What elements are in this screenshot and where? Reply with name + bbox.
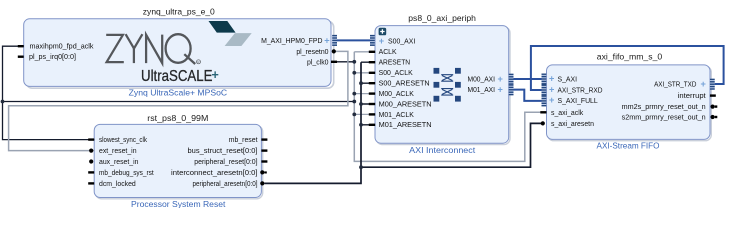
block rst_ps8_0_99M (94, 113, 263, 209)
pin aux_reset_in (89, 159, 139, 166)
svg-text:S00_ARESETN: S00_ARESETN (379, 81, 430, 88)
interconnect expand icon (379, 28, 387, 36)
pin dcm_locked (88, 181, 136, 188)
svg-text:rst_ps8_0_99M: rst_ps8_0_99M (147, 113, 208, 123)
pin S00_ACLK (369, 70, 413, 77)
pin S_AXI (542, 74, 578, 85)
wire aresetn branches to interconnect pins (361, 62, 375, 125)
pin M00_ACLK (369, 91, 414, 98)
svg-text:S00_AXI: S00_AXI (388, 39, 415, 46)
pin M00_ARESETN (369, 101, 432, 108)
svg-text:ACLK: ACLK (379, 49, 397, 56)
wire M00_AXI to S_AXI (511, 78, 543, 80)
pin mb_reset (229, 137, 268, 144)
svg-text:s_axi_aresetn: s_axi_aresetn (551, 121, 594, 128)
pin interrupt (678, 93, 716, 100)
pin s2mm_prmry_reset_out_n (622, 115, 718, 122)
svg-text:M01_ACLK: M01_ACLK (379, 112, 415, 119)
svg-text:S_AXI_FULL: S_AXI_FULL (558, 98, 598, 105)
svg-text:S00_ACLK: S00_ACLK (379, 70, 413, 77)
svg-text:M00_ARESETN: M00_ARESETN (379, 101, 432, 108)
junction M01_ACLK (352, 113, 356, 117)
junction clock left (1, 100, 5, 104)
svg-text:Zynq UltraScale+ MPSoC: Zynq UltraScale+ MPSoC (129, 87, 228, 97)
svg-text:zynq_ultra_ps_e_0: zynq_ultra_ps_e_0 (143, 6, 215, 16)
svg-text:Processor System Reset: Processor System Reset (131, 199, 226, 208)
pin maxihpm0_fpd_aclk (18, 44, 94, 51)
svg-text:AXI Interconnect: AXI Interconnect (409, 145, 476, 155)
pin interconnect_aresetn (171, 170, 267, 177)
svg-text:mb_reset: mb_reset (229, 137, 258, 144)
pin M01_ACLK (369, 112, 414, 119)
svg-text:s_axi_aclk: s_axi_aclk (551, 110, 584, 117)
ZYNQ logo gray parallelogram (225, 33, 252, 46)
pin S_AXI_FULL (542, 95, 598, 106)
svg-text:AXI_STR_TXD: AXI_STR_TXD (654, 82, 696, 89)
svg-text:pl_resetn0: pl_resetn0 (296, 49, 328, 56)
junction aresetn bottom (359, 165, 363, 169)
pin AXI_STR_TXD (654, 79, 715, 90)
ZYNQ logo (106, 34, 200, 64)
junction M01_ARESETN (359, 123, 363, 127)
svg-text:peripheral_reset[0:0]: peripheral_reset[0:0] (194, 159, 257, 166)
junction pl_clk0 (352, 60, 356, 64)
svg-text:axi_fifo_mm_s_0: axi_fifo_mm_s_0 (597, 51, 663, 61)
block zynq_ultra_ps_e_0 (24, 6, 334, 97)
pin mb_debug_sys_rst (88, 170, 154, 177)
block axi_fifo_mm_s_0 (547, 51, 712, 150)
pin ARESETN (369, 60, 410, 67)
pin M00_AXI (468, 74, 514, 85)
pin peripheral_aresetn (193, 181, 265, 188)
pin pl_ps_irq0 (18, 54, 76, 61)
svg-text:AXI-Stream FIFO: AXI-Stream FIFO (597, 141, 660, 151)
svg-text:M_AXI_HPM0_FPD: M_AXI_HPM0_FPD (261, 38, 322, 45)
wire peripheral_aresetn net (264, 62, 542, 183)
svg-text:slowest_sync_clk: slowest_sync_clk (99, 137, 147, 144)
pin bus_struct_reset (188, 148, 268, 155)
pin slowest_sync_clk (88, 137, 147, 144)
pin pl_clk0 (307, 59, 337, 66)
svg-text:ps8_0_axi_periph: ps8_0_axi_periph (408, 13, 476, 23)
interconnect crossbar icon U-icon (434, 68, 461, 102)
pin S00_ARESETN (369, 81, 430, 88)
pin S00_AXI (370, 35, 415, 46)
svg-text:mb_debug_sys_rst: mb_debug_sys_rst (99, 170, 154, 177)
wire M01_AXI to S_AXI_FULL (511, 90, 543, 101)
svg-text:M01_ARESETN: M01_ARESETN (379, 122, 432, 129)
ZYNQ logo dark parallelogram (209, 21, 236, 33)
svg-text:s2mm_prmry_reset_out_n: s2mm_prmry_reset_out_n (622, 115, 706, 122)
junction S00_ACLK (352, 71, 356, 75)
svg-text:dcm_locked: dcm_locked (99, 181, 136, 188)
pin pl_resetn0 (296, 49, 336, 56)
junction S00_ARESETN (359, 81, 363, 85)
svg-text:ext_reset_in: ext_reset_in (99, 148, 137, 155)
svg-text:M01_AXI: M01_AXI (468, 87, 496, 94)
pin M_AXI_HPM0_FPD (261, 35, 337, 46)
pin s_axi_aresetn (541, 121, 594, 128)
svg-text:M00_AXI: M00_AXI (468, 77, 496, 84)
svg-text:+: + (549, 84, 554, 94)
pin ACLK (369, 49, 397, 56)
svg-text:mm2s_prmry_reset_out_n: mm2s_prmry_reset_out_n (622, 104, 706, 111)
svg-text:UltraSCALE: UltraSCALE (141, 68, 213, 85)
junction clock horizontal (352, 100, 356, 104)
pin peripheral_reset (194, 159, 267, 166)
svg-text:+: + (379, 36, 384, 46)
svg-text:interrupt: interrupt (678, 93, 706, 100)
wire pl_resetn0 to ext_reset_in (9, 51, 348, 150)
svg-text:+: + (549, 95, 554, 105)
pin AXI_STR_RXD (542, 84, 603, 95)
junction M00_ACLK (352, 92, 356, 96)
svg-text:interconnect_aresetn[0:0]: interconnect_aresetn[0:0] (171, 170, 258, 177)
svg-text:M00_ACLK: M00_ACLK (379, 91, 415, 98)
svg-text:pl_ps_irq0[0:0]: pl_ps_irq0[0:0] (29, 54, 76, 61)
svg-text:ARESETN: ARESETN (379, 60, 411, 67)
svg-text:+: + (324, 35, 329, 45)
junction M00_ARESETN (359, 102, 363, 106)
svg-text:bus_struct_reset[0:0]: bus_struct_reset[0:0] (188, 148, 258, 155)
svg-text:AXI_STR_RXD: AXI_STR_RXD (558, 87, 603, 94)
svg-text:aux_reset_in: aux_reset_in (99, 159, 139, 166)
svg-text:S_AXI: S_AXI (558, 77, 578, 84)
wire pl_clk0 clock net left part (3, 46, 355, 139)
block ps8_0_axi_periph (375, 13, 510, 155)
svg-text:+: + (549, 74, 554, 84)
pin s_axi_aclk (540, 110, 583, 117)
svg-text:maxihpm0_fpd_aclk: maxihpm0_fpd_aclk (30, 44, 95, 51)
pin M01_ARESETN (369, 122, 432, 129)
pin M01_AXI (468, 84, 514, 95)
svg-text:peripheral_aresetn[0:0]: peripheral_aresetn[0:0] (193, 181, 258, 188)
svg-text:+: + (212, 68, 219, 82)
svg-text:pl_clk0: pl_clk0 (307, 59, 329, 66)
wire AXI_STR_TXD loopback to AXI_STR_RXD (531, 46, 724, 90)
wire clock net interconnect vertical (354, 52, 546, 162)
pin ext_reset_in (89, 148, 137, 155)
svg-text:+: + (498, 85, 503, 95)
pin mm2s_prmry_reset_out_n (622, 104, 718, 111)
svg-text:+: + (701, 79, 706, 89)
wire clock branches to ACLK pins (354, 52, 375, 115)
svg-text:+: + (498, 74, 503, 84)
wire M_AXI_HPM0_FPD to S00_AXI (333, 39, 374, 41)
